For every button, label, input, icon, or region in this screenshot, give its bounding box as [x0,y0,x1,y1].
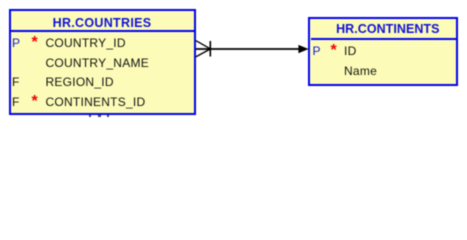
crow's foot top prong [196,41,210,49]
title HR.COUNTRIES [8,17,196,29]
flag P row ID [313,45,321,57]
title HR.CONTINENTS [313,23,462,35]
column Name [344,65,377,77]
flag F row CONTINENTS_ID [12,96,19,108]
relationship connector [0,0,467,127]
cropped text marks below table 1 [89,115,91,116]
crow's foot bottom prong [196,49,210,57]
star row ID [331,45,337,57]
table HR.CONTINENTS [308,17,458,86]
column REGION_ID [46,76,114,88]
column ID [344,45,357,57]
separator line table 2 [311,38,456,40]
column COUNTRY_NAME [46,57,149,69]
star row COUNTRY_ID [32,37,38,49]
flag P row COUNTRY_ID [12,37,20,49]
separator line table 1 [10,30,194,32]
column COUNTRY_ID [46,37,126,49]
wire relationship line [196,48,307,50]
column CONTINENTS_ID [46,96,146,108]
arrowhead [298,45,308,53]
crow's foot tick [209,41,211,57]
star row CONTINENTS_ID [32,96,38,108]
table HR.COUNTRIES [9,9,196,116]
flag F row REGION_ID [12,76,19,88]
